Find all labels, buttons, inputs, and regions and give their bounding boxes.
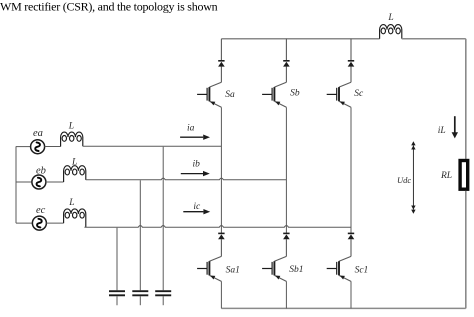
transistor Sc bbox=[327, 82, 351, 107]
inductor L (dc link) bbox=[380, 25, 402, 39]
svg-text:Sa: Sa bbox=[225, 90, 235, 100]
wire phase a node bbox=[83, 145, 222, 147]
inductor L (phase b) bbox=[64, 166, 86, 182]
transistor Sb1 bbox=[262, 256, 286, 281]
current arrow iL bbox=[452, 116, 458, 138]
svg-text:ea: ea bbox=[33, 128, 43, 139]
svg-text:L: L bbox=[68, 122, 74, 132]
wire diode to switch Sb1 bbox=[285, 239, 287, 256]
wire diode to switch Sa1 bbox=[220, 239, 222, 256]
current arrow ib bbox=[181, 171, 210, 176]
wire column c to bottom rail bbox=[350, 281, 352, 308]
wire column c rail to diode bbox=[350, 39, 352, 61]
wire right vertical lower bbox=[465, 191, 467, 309]
wire column a rail to diode bbox=[220, 39, 222, 61]
wire top rail right bbox=[402, 38, 466, 40]
wire phase b node bbox=[86, 178, 287, 180]
diode Dc (upper) bbox=[348, 61, 355, 67]
wire ec left stub bbox=[16, 222, 32, 224]
transistor Sb bbox=[262, 82, 286, 107]
wire right vertical upper bbox=[465, 39, 467, 159]
AC source ec bbox=[32, 216, 46, 230]
inductor L (phase a) bbox=[61, 132, 83, 146]
diode Dc (lower) bbox=[348, 233, 355, 239]
svg-text:ia: ia bbox=[187, 124, 195, 134]
diode Db (lower) bbox=[283, 233, 290, 239]
wire ec to L bbox=[46, 222, 63, 224]
AC source eb bbox=[32, 175, 46, 189]
svg-text:eb: eb bbox=[36, 165, 46, 176]
wire column b to bottom rail bbox=[285, 281, 287, 308]
wire diode to switch Sb bbox=[285, 67, 287, 83]
wire phase c node bbox=[84, 226, 351, 228]
wire column c mid vertical bbox=[350, 107, 352, 233]
wire bottom rail bbox=[221, 307, 465, 309]
wire eb left stub bbox=[16, 181, 32, 183]
current arrow ic bbox=[183, 209, 210, 214]
svg-text:Sa1: Sa1 bbox=[226, 265, 240, 275]
capacitor C1 bbox=[109, 228, 125, 306]
diode Da (lower) bbox=[218, 233, 225, 239]
diode Db (upper) bbox=[283, 61, 290, 67]
svg-text:ib: ib bbox=[193, 160, 201, 170]
transistor Sc1 bbox=[327, 256, 351, 281]
AC source ea bbox=[31, 140, 45, 154]
wire column a to bottom rail bbox=[220, 281, 222, 308]
svg-text:iL: iL bbox=[438, 126, 446, 136]
wire ea left stub bbox=[16, 146, 31, 148]
wire diode to switch Sc bbox=[350, 67, 352, 83]
resistor RL bbox=[460, 161, 468, 190]
svg-text:ic: ic bbox=[193, 202, 201, 212]
svg-text:Sc: Sc bbox=[354, 89, 364, 99]
svg-text:Sb: Sb bbox=[290, 89, 300, 99]
wire column b mid vertical bbox=[285, 107, 287, 233]
wire diode to switch Sc1 bbox=[350, 239, 352, 256]
transistor Sa bbox=[197, 82, 221, 107]
wire diode to switch Sa bbox=[220, 67, 222, 83]
wire top rail left bbox=[221, 38, 379, 40]
svg-text:Sb1: Sb1 bbox=[289, 265, 303, 275]
svg-text:L: L bbox=[71, 157, 77, 167]
wire column a mid vertical bbox=[220, 107, 222, 233]
wire ea to L bbox=[45, 146, 61, 148]
svg-text:Udc: Udc bbox=[397, 175, 411, 185]
transistor Sa1 bbox=[197, 256, 221, 281]
capacitor C3 bbox=[155, 147, 171, 305]
svg-text:WM rectifier (CSR), and the to: WM rectifier (CSR), and the topology is … bbox=[0, 0, 218, 14]
svg-text:L: L bbox=[387, 13, 393, 23]
wire left bus bbox=[15, 146, 17, 223]
svg-text:Sc1: Sc1 bbox=[355, 265, 369, 275]
svg-text:RL: RL bbox=[440, 171, 452, 181]
svg-text:L: L bbox=[68, 198, 74, 208]
inductor L (phase c) bbox=[64, 209, 86, 227]
wire eb to L bbox=[46, 181, 64, 183]
voltage arrow Udc bbox=[411, 141, 415, 213]
svg-text:ec: ec bbox=[36, 205, 46, 216]
current arrow ia bbox=[180, 135, 210, 140]
diode Da (upper) bbox=[218, 61, 225, 67]
wire column b rail to diode bbox=[285, 39, 287, 61]
capacitor C2 bbox=[132, 180, 148, 305]
